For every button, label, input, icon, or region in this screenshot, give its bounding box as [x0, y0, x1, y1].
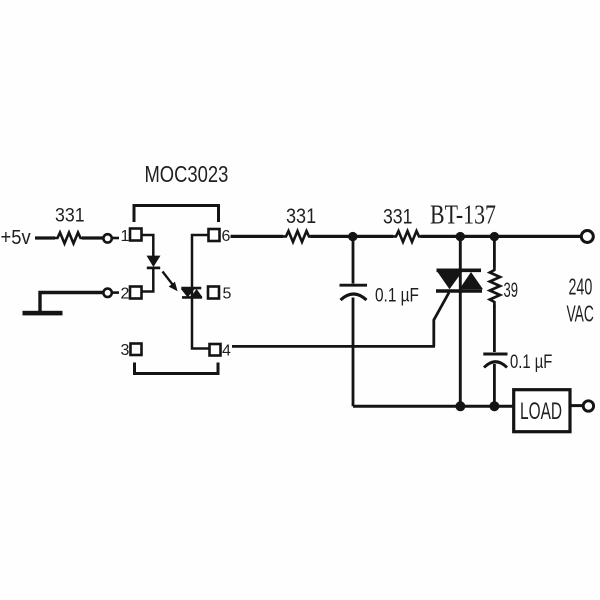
svg-text:LOAD: LOAD [520, 397, 562, 425]
capacitor C1 0.1uF [340, 284, 420, 306]
wire R3 to right terminal [421, 235, 582, 238]
optocoupler U1 package outline top [134, 206, 219, 223]
LED D1 inside optocoupler [147, 256, 161, 268]
internal photo-triac vertical wire pin6 to pin4 [192, 235, 210, 349]
svg-text:331: 331 [286, 205, 316, 229]
wire LED cathode to pin2 [142, 269, 154, 292]
terminal circle AC line top [581, 231, 593, 243]
svg-text:331: 331 [55, 204, 85, 226]
pin 3 square [131, 344, 142, 356]
svg-text:240: 240 [569, 275, 593, 300]
pin 1 square [130, 229, 142, 241]
node D junction dot (triac cathode) [455, 401, 465, 411]
svg-text:3: 3 [121, 342, 130, 359]
wire pin6 to R2 [231, 235, 284, 238]
optocoupler U1 package outline bottom [135, 363, 219, 374]
node E junction dot (snubber bottom) [489, 401, 499, 411]
LOAD box [514, 390, 570, 432]
wire pin1 to LED anode [142, 235, 154, 256]
wire R1 to terminal [82, 236, 104, 239]
wire +5v to R1 [35, 236, 55, 239]
resistor R2 331 [283, 205, 317, 242]
capacitor C2 bottom lead [493, 364, 496, 406]
wire terminal to pin2 [112, 291, 119, 294]
bottom rail wire [353, 405, 515, 408]
pin 2 square [130, 287, 142, 299]
svg-text:2: 2 [121, 286, 130, 303]
triac gate wire [434, 293, 449, 347]
pin 6 square [209, 229, 220, 241]
photo-triac symbol inside optocoupler [181, 288, 203, 297]
svg-text:MOC3023: MOC3023 [145, 162, 229, 187]
svg-text:331: 331 [383, 205, 412, 229]
svg-text:6: 6 [222, 228, 231, 245]
node B junction dot (triac anode) [456, 232, 465, 241]
terminal circle AC line bottom [583, 401, 593, 411]
capacitor C2 0.1uF [483, 350, 552, 373]
pin 4 square [210, 344, 221, 356]
svg-text:0.1 µF: 0.1 µF [510, 350, 552, 373]
capacitor C1 top lead [352, 237, 355, 284]
resistor R4 39 [490, 267, 518, 306]
wire R2 to node A [311, 235, 394, 238]
light emission arrow [163, 272, 178, 292]
svg-text:VAC: VAC [567, 302, 594, 327]
svg-text:39: 39 [504, 278, 518, 302]
wire terminal to pin1 [112, 237, 119, 240]
wire pin4 to gate [232, 345, 435, 348]
ground wire [40, 293, 104, 313]
svg-text:0.1 µF: 0.1 µF [375, 284, 419, 306]
ground bar [23, 311, 63, 316]
capacitor C1 bottom lead [352, 298, 355, 407]
pin 5 square [208, 287, 219, 299]
svg-text:+5v: +5v [1, 227, 32, 249]
triac Q1 BT-137 symbol [436, 270, 483, 291]
resistor R4 39 top lead [493, 237, 496, 267]
terminal circle at pin1 [103, 234, 111, 242]
resistor R1 331 [54, 204, 85, 244]
node A junction dot [348, 232, 357, 241]
svg-text:BT-137: BT-137 [430, 200, 496, 230]
triac Q1 main vertical wire [459, 237, 462, 407]
wire LOAD to right terminal [570, 404, 583, 407]
svg-text:4: 4 [222, 343, 231, 360]
terminal circle at pin2 [103, 289, 111, 297]
node C junction dot (snubber branch) [490, 232, 499, 241]
svg-text:5: 5 [223, 286, 232, 303]
resistor R4 bottom lead [493, 305, 496, 352]
resistor R3 331 [383, 205, 422, 242]
svg-text:1: 1 [121, 228, 130, 245]
